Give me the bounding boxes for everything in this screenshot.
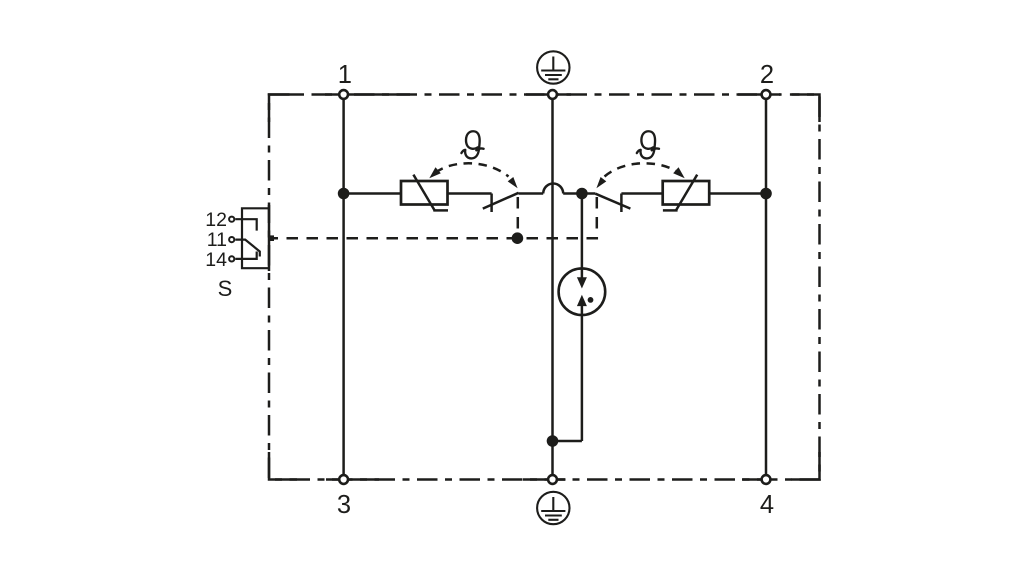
svg-text:12: 12 (205, 209, 227, 231)
svg-text:1: 1 (338, 61, 352, 89)
svg-text:2: 2 (760, 61, 774, 89)
svg-text:4: 4 (760, 491, 774, 519)
svg-text:3: 3 (337, 491, 351, 519)
svg-text:11: 11 (207, 229, 227, 251)
svg-text:S: S (218, 276, 233, 301)
svg-text:14: 14 (205, 249, 227, 271)
